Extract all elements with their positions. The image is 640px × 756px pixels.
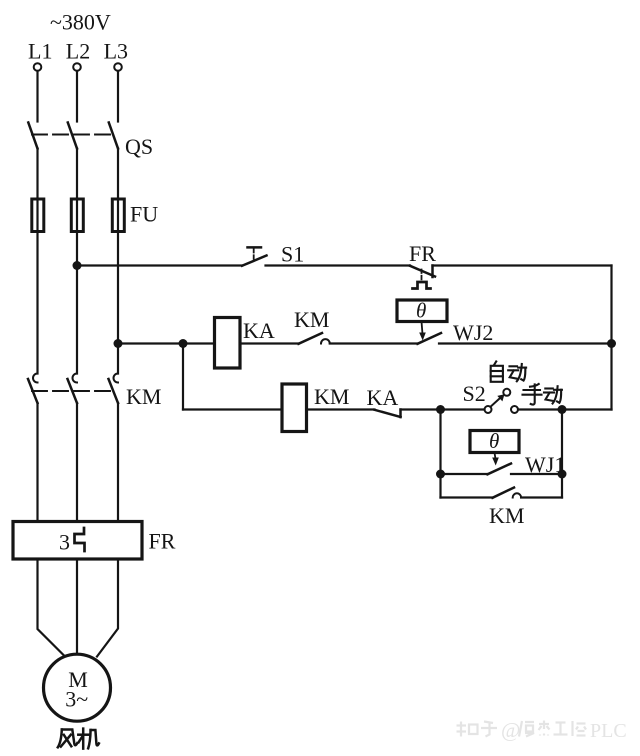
svg-text:FR: FR <box>409 241 436 266</box>
svg-text:3~: 3~ <box>65 687 88 712</box>
svg-text:FU: FU <box>130 202 158 227</box>
svg-text:WJ2: WJ2 <box>453 320 493 345</box>
svg-text:KM: KM <box>489 503 524 528</box>
svg-text:L3: L3 <box>104 39 128 64</box>
svg-text:3: 3 <box>59 530 70 555</box>
svg-text:FR: FR <box>149 529 176 554</box>
svg-text:θ: θ <box>489 429 499 453</box>
svg-text:KA: KA <box>367 385 399 410</box>
svg-text:L1: L1 <box>28 39 52 64</box>
svg-text:KA: KA <box>243 318 275 343</box>
svg-text:KM: KM <box>314 384 349 409</box>
svg-text:KM: KM <box>126 384 161 409</box>
svg-text:PLC: PLC <box>590 720 627 742</box>
svg-text:S2: S2 <box>463 381 486 406</box>
svg-text:@: @ <box>501 718 520 742</box>
svg-text:θ: θ <box>416 299 426 323</box>
svg-text:QS: QS <box>125 134 153 159</box>
svg-text:WJ1: WJ1 <box>525 452 565 477</box>
svg-text:L2: L2 <box>66 39 90 64</box>
svg-text:~380V: ~380V <box>50 10 111 35</box>
svg-text:S1: S1 <box>281 242 304 267</box>
svg-text:KM: KM <box>294 307 329 332</box>
